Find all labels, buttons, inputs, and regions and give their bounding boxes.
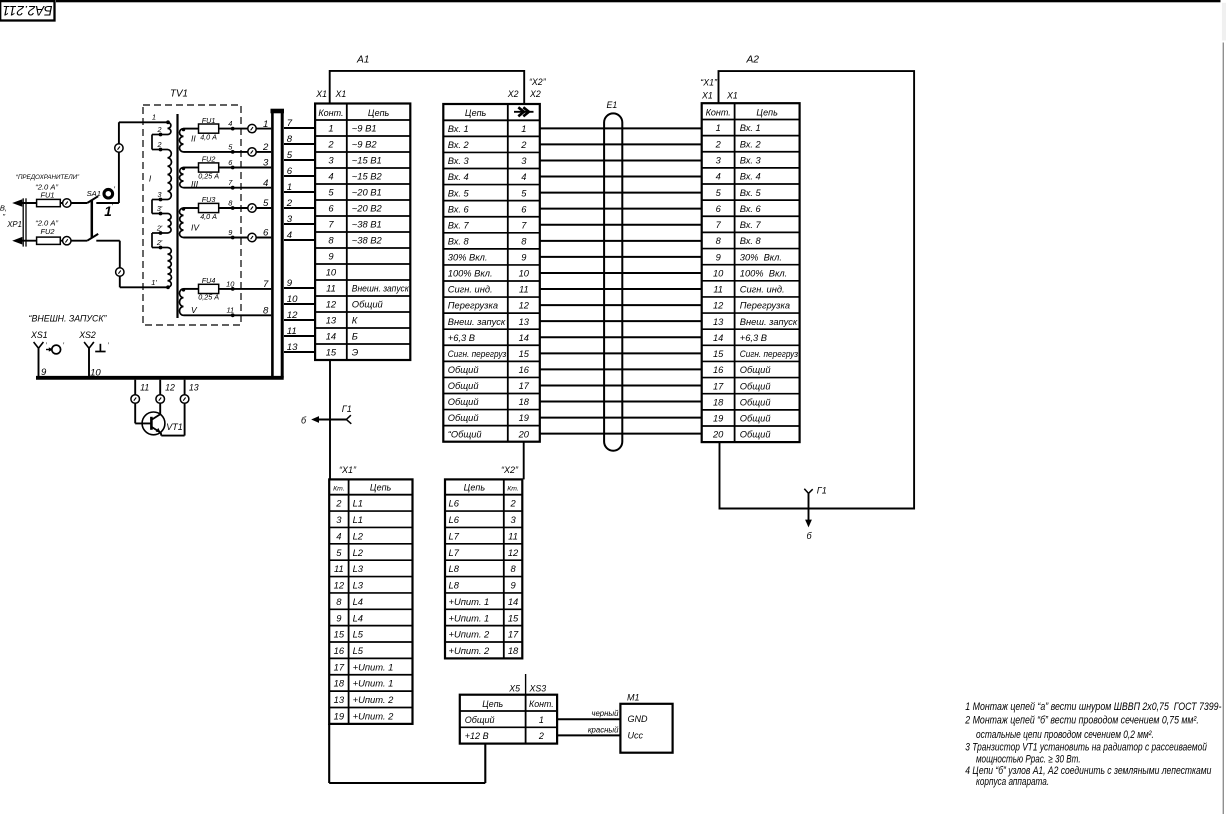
svg-text:10: 10 xyxy=(226,279,235,288)
svg-text:L7: L7 xyxy=(449,547,460,558)
svg-text:FU1: FU1 xyxy=(202,116,216,125)
svg-text:10: 10 xyxy=(90,368,101,379)
svg-text:FU1: FU1 xyxy=(41,191,55,200)
svg-text:Вх. 4: Вх. 4 xyxy=(740,172,761,182)
svg-text:+Uпит. 2: +Uпит. 2 xyxy=(353,694,395,705)
svg-text:16: 16 xyxy=(519,365,530,375)
svg-text:1 Монтаж цепей “а” вести шнуро: 1 Монтаж цепей “а” вести шнуром ШВВП 2х0… xyxy=(965,701,1226,713)
svg-text:L4: L4 xyxy=(353,612,363,623)
svg-text:100% Вкл.: 100% Вкл. xyxy=(740,268,787,278)
svg-text:VT1: VT1 xyxy=(166,422,183,432)
svg-text:12: 12 xyxy=(326,299,337,310)
svg-text:2: 2 xyxy=(538,731,544,741)
svg-text:Цепь: Цепь xyxy=(464,483,486,493)
svg-text:13: 13 xyxy=(334,694,345,705)
svg-text:18: 18 xyxy=(508,645,519,656)
svg-text:М1: М1 xyxy=(627,692,640,702)
svg-text:Общий: Общий xyxy=(448,413,479,423)
svg-text:~20 В1: ~20 В1 xyxy=(352,187,382,198)
svg-text:1: 1 xyxy=(539,715,544,725)
svg-text:2: 2 xyxy=(327,139,334,150)
svg-text:~38 В1: ~38 В1 xyxy=(352,219,382,230)
svg-text:4: 4 xyxy=(336,530,341,541)
svg-text:“X2”: “X2” xyxy=(501,465,519,475)
svg-text:9: 9 xyxy=(328,251,334,262)
svg-text:+Uпит. 1: +Uпит. 1 xyxy=(353,661,394,672)
svg-text:Вх. 6: Вх. 6 xyxy=(448,204,470,214)
svg-text:L7: L7 xyxy=(449,530,460,541)
svg-text:Сигн. перегруз: Сигн. перегруз xyxy=(448,349,507,359)
svg-text:2: 2 xyxy=(286,198,293,209)
svg-text:“X1”: “X1” xyxy=(339,465,357,475)
svg-text:11: 11 xyxy=(287,326,297,337)
svg-text:L3: L3 xyxy=(353,580,364,591)
svg-text:2: 2 xyxy=(157,125,162,134)
svg-text:FU2: FU2 xyxy=(202,155,216,164)
svg-text:8: 8 xyxy=(287,134,293,145)
svg-text:9: 9 xyxy=(510,580,516,591)
svg-text:X1: X1 xyxy=(315,89,327,99)
svg-text:Внеш. запуск: Внеш. запуск xyxy=(740,317,798,327)
svg-text:4: 4 xyxy=(521,172,526,182)
svg-text:Общий: Общий xyxy=(352,299,384,310)
svg-text:L8: L8 xyxy=(449,563,460,574)
svg-text:14: 14 xyxy=(508,596,518,607)
svg-text:Г1: Г1 xyxy=(342,404,352,414)
svg-text:Общий: Общий xyxy=(465,715,495,725)
svg-text:5: 5 xyxy=(716,188,722,198)
svg-text:2: 2 xyxy=(520,140,527,150)
svg-text:10: 10 xyxy=(287,294,298,305)
svg-text:Ucc: Ucc xyxy=(628,731,644,741)
svg-text:2': 2' xyxy=(156,238,163,247)
svg-text:0,25 А: 0,25 А xyxy=(198,293,219,302)
svg-text:9: 9 xyxy=(336,612,342,623)
svg-text:17: 17 xyxy=(519,381,530,391)
svg-text:Кт.: Кт. xyxy=(507,486,519,493)
svg-text:3: 3 xyxy=(336,514,342,525)
svg-text:12: 12 xyxy=(287,310,298,321)
svg-text:6: 6 xyxy=(328,203,334,214)
svg-text:Конт.: Конт. xyxy=(318,108,343,118)
svg-text:10: 10 xyxy=(326,267,337,278)
svg-text:11: 11 xyxy=(713,285,723,295)
svg-text:12: 12 xyxy=(165,382,175,392)
svg-text:8: 8 xyxy=(716,236,722,246)
svg-text:100% Вкл.: 100% Вкл. xyxy=(448,269,493,279)
svg-text:11: 11 xyxy=(326,283,336,294)
svg-text:~38 В2: ~38 В2 xyxy=(352,235,383,246)
svg-text:8: 8 xyxy=(521,236,527,246)
svg-text:1: 1 xyxy=(287,182,292,193)
svg-text:“ВНЕШН. ЗАПУСК”: “ВНЕШН. ЗАПУСК” xyxy=(29,313,108,323)
svg-text:Кт.: Кт. xyxy=(333,486,345,493)
svg-text:1': 1' xyxy=(151,278,157,287)
svg-text:A1: A1 xyxy=(356,55,369,66)
svg-text:19: 19 xyxy=(519,413,529,423)
svg-text:+6,3 В: +6,3 В xyxy=(740,333,767,343)
svg-text:“Общий: “Общий xyxy=(448,429,482,439)
svg-text:3: 3 xyxy=(158,190,162,199)
svg-text:6: 6 xyxy=(287,166,293,177)
svg-text:L3: L3 xyxy=(353,563,364,574)
svg-text:15: 15 xyxy=(713,349,724,359)
svg-text:9: 9 xyxy=(521,253,526,263)
svg-text:3': 3' xyxy=(157,204,163,213)
svg-text:11: 11 xyxy=(334,563,344,574)
svg-text:10: 10 xyxy=(519,269,530,279)
svg-text:7: 7 xyxy=(521,220,527,230)
svg-text:L4: L4 xyxy=(353,596,363,607)
svg-text:14: 14 xyxy=(713,333,723,343)
svg-text:9: 9 xyxy=(41,367,47,378)
svg-text:2: 2 xyxy=(715,139,722,149)
svg-text:16: 16 xyxy=(713,365,724,375)
svg-text:2': 2' xyxy=(156,224,163,233)
svg-text:30% Вкл.: 30% Вкл. xyxy=(740,252,782,262)
svg-text:Вх. 4: Вх. 4 xyxy=(448,172,469,182)
svg-text:4: 4 xyxy=(228,119,232,128)
svg-text:Вх. 8: Вх. 8 xyxy=(448,236,470,246)
svg-text:Внеш. запуск: Внеш. запуск xyxy=(448,317,506,327)
svg-text:Общий: Общий xyxy=(740,414,771,424)
svg-text:10: 10 xyxy=(713,268,724,278)
svg-text:XS3: XS3 xyxy=(529,684,547,694)
svg-text:15: 15 xyxy=(326,347,337,358)
svg-text:2 Монтаж цепей “б” вести прово: 2 Монтаж цепей “б” вести проводом сечени… xyxy=(964,714,1198,726)
svg-text:13: 13 xyxy=(287,342,298,353)
svg-text:L8: L8 xyxy=(449,580,460,591)
svg-text:Внешн. запуск: Внешн. запуск xyxy=(352,283,410,294)
svg-text:X2: X2 xyxy=(529,89,541,99)
svg-text:Конт.: Конт. xyxy=(529,699,554,709)
svg-text:16: 16 xyxy=(334,645,345,656)
svg-text:3: 3 xyxy=(521,156,527,166)
svg-text:Общий: Общий xyxy=(448,365,479,375)
svg-text:Перегрузка: Перегрузка xyxy=(448,301,498,311)
svg-text:2: 2 xyxy=(157,140,162,149)
svg-text:Цепь: Цепь xyxy=(756,107,778,117)
svg-text:“ПРЕДОХРАНИТЕЛИ”: “ПРЕДОХРАНИТЕЛИ” xyxy=(16,174,80,181)
svg-text:+Uпит. 2: +Uпит. 2 xyxy=(353,710,395,721)
svg-text:14: 14 xyxy=(519,333,529,343)
svg-text:1: 1 xyxy=(328,123,333,134)
svg-text:9: 9 xyxy=(228,228,232,237)
svg-text:К: К xyxy=(352,315,358,326)
svg-text:Э: Э xyxy=(352,347,359,358)
svg-text:18: 18 xyxy=(713,397,724,407)
svg-text:мощностью Ррас. ≥ 30 Вт.: мощностью Ррас. ≥ 30 Вт. xyxy=(976,754,1081,766)
svg-text:4,0 А: 4,0 А xyxy=(200,212,217,221)
svg-text:L1: L1 xyxy=(353,498,363,509)
svg-text:11: 11 xyxy=(226,306,234,315)
svg-text:3: 3 xyxy=(287,214,293,225)
svg-text:1: 1 xyxy=(263,119,268,130)
svg-text:Вх. 2: Вх. 2 xyxy=(740,139,762,149)
svg-text:Общий: Общий xyxy=(448,397,479,407)
svg-text:Общий: Общий xyxy=(740,397,771,407)
svg-text:Цепь: Цепь xyxy=(482,699,503,709)
svg-text:8: 8 xyxy=(336,596,342,607)
svg-text:Перегрузка: Перегрузка xyxy=(740,301,790,311)
svg-text:L2: L2 xyxy=(353,547,364,558)
svg-text:4: 4 xyxy=(716,172,721,182)
svg-text:+Uпит. 1: +Uпит. 1 xyxy=(449,596,490,607)
svg-text:XS1: XS1 xyxy=(30,330,48,340)
svg-text:8: 8 xyxy=(263,306,269,317)
svg-text:A2: A2 xyxy=(746,55,760,66)
svg-text:SA1: SA1 xyxy=(87,189,101,198)
svg-text:11: 11 xyxy=(140,382,149,392)
svg-text:~9 В1: ~9 В1 xyxy=(352,123,377,134)
svg-text:12: 12 xyxy=(334,580,345,591)
svg-text:Вх. 7: Вх. 7 xyxy=(448,220,470,230)
svg-text:11: 11 xyxy=(519,285,529,295)
svg-text:12: 12 xyxy=(508,547,519,558)
svg-text:8: 8 xyxy=(510,563,516,574)
svg-text:Общий: Общий xyxy=(740,381,771,391)
svg-text:3: 3 xyxy=(263,158,269,169)
svg-text:остальные цепи проводом сечени: остальные цепи проводом сечением 0,2 мм²… xyxy=(976,729,1154,741)
svg-text:GND: GND xyxy=(628,714,649,724)
svg-text:3: 3 xyxy=(328,155,334,166)
svg-text:черный: черный xyxy=(591,709,619,718)
svg-text:L6: L6 xyxy=(449,498,460,509)
svg-text:X1: X1 xyxy=(701,91,713,101)
svg-text:4: 4 xyxy=(328,171,333,182)
svg-text:6: 6 xyxy=(716,204,722,214)
svg-text:13: 13 xyxy=(189,382,199,392)
svg-text:0,25 А: 0,25 А xyxy=(198,171,219,180)
svg-text:корпуса аппарата.: корпуса аппарата. xyxy=(976,776,1049,788)
svg-text:11: 11 xyxy=(508,530,518,541)
svg-text:15: 15 xyxy=(519,349,530,359)
svg-text:FU4: FU4 xyxy=(202,276,216,285)
svg-text:Вх. 3: Вх. 3 xyxy=(448,156,470,166)
svg-text:5: 5 xyxy=(287,150,293,161)
svg-text:9: 9 xyxy=(716,252,721,262)
svg-text:+Uпит. 1: +Uпит. 1 xyxy=(353,678,394,689)
svg-text:5: 5 xyxy=(328,187,334,198)
svg-text:Сигн. инд.: Сигн. инд. xyxy=(740,285,785,295)
svg-text:+Uпит. 2: +Uпит. 2 xyxy=(449,645,491,656)
svg-text:15: 15 xyxy=(508,612,519,623)
svg-text:Вх. 8: Вх. 8 xyxy=(740,236,762,246)
svg-text:Общий: Общий xyxy=(740,430,771,440)
svg-text:1: 1 xyxy=(152,113,156,122)
svg-text:19: 19 xyxy=(713,414,723,424)
svg-text:Б: Б xyxy=(352,331,358,342)
svg-text:Общий: Общий xyxy=(740,365,771,375)
svg-text:II: II xyxy=(191,134,196,144)
svg-text:’: ’ xyxy=(113,186,115,195)
svg-text:1: 1 xyxy=(716,123,721,133)
svg-text:13: 13 xyxy=(519,317,530,327)
svg-text:~15 В1: ~15 В1 xyxy=(352,155,382,166)
svg-text:2: 2 xyxy=(335,498,342,509)
svg-text:IV: IV xyxy=(191,223,200,233)
svg-text:~9 В2: ~9 В2 xyxy=(352,139,378,150)
svg-text:19: 19 xyxy=(334,710,345,721)
svg-text:L6: L6 xyxy=(449,514,460,525)
svg-text:+12 В: +12 В xyxy=(465,731,489,741)
svg-text:2: 2 xyxy=(262,142,269,153)
svg-text:9: 9 xyxy=(287,278,293,289)
svg-text:17: 17 xyxy=(508,629,519,640)
svg-text:X5: X5 xyxy=(508,684,520,694)
svg-text:Вх. 1: Вх. 1 xyxy=(740,123,761,133)
svg-text:L2: L2 xyxy=(353,530,364,541)
svg-text:13: 13 xyxy=(713,317,724,327)
svg-text:XP1: XP1 xyxy=(6,220,22,229)
svg-text:красный: красный xyxy=(588,725,619,734)
svg-text:Сигн. инд.: Сигн. инд. xyxy=(448,285,493,295)
svg-text:Цепь: Цепь xyxy=(368,108,390,118)
svg-text:2: 2 xyxy=(509,498,516,509)
svg-text:+Uпит. 2: +Uпит. 2 xyxy=(449,629,491,640)
svg-text:FU3: FU3 xyxy=(202,195,216,204)
svg-text:“X2”: “X2” xyxy=(529,77,547,87)
svg-text:E1: E1 xyxy=(607,100,618,110)
svg-text:30% Вкл.: 30% Вкл. xyxy=(448,253,488,263)
svg-text:8: 8 xyxy=(328,235,334,246)
svg-text:Вх. 1: Вх. 1 xyxy=(448,124,469,134)
svg-text:7: 7 xyxy=(328,219,334,230)
svg-text:1: 1 xyxy=(521,124,526,134)
svg-text:Вх. 5: Вх. 5 xyxy=(448,188,470,198)
svg-text:17: 17 xyxy=(713,381,724,391)
svg-text:Общий: Общий xyxy=(448,381,479,391)
svg-text:+Uпит. 1: +Uпит. 1 xyxy=(449,612,490,623)
svg-text:“X1”: “X1” xyxy=(700,78,718,88)
svg-text:5: 5 xyxy=(263,198,269,209)
svg-text:6: 6 xyxy=(521,204,527,214)
svg-text:Г1: Г1 xyxy=(817,486,827,496)
svg-text:FU2: FU2 xyxy=(41,227,55,236)
svg-text:20: 20 xyxy=(712,430,724,440)
svg-text:~20 В2: ~20 В2 xyxy=(352,203,383,214)
svg-text:13: 13 xyxy=(326,315,337,326)
svg-text:Вх. 5: Вх. 5 xyxy=(740,188,762,198)
svg-text:Цепь: Цепь xyxy=(465,108,487,118)
svg-text:X2: X2 xyxy=(507,89,519,99)
svg-text:Конт.: Конт. xyxy=(706,107,731,117)
svg-text:7: 7 xyxy=(263,279,269,290)
svg-text:14: 14 xyxy=(326,331,336,342)
svg-text:X1: X1 xyxy=(726,91,738,101)
svg-text:18: 18 xyxy=(334,678,345,689)
svg-text:+6,3 В: +6,3 В xyxy=(448,333,475,343)
svg-text:12: 12 xyxy=(519,301,530,311)
svg-text:X1: X1 xyxy=(335,89,347,99)
svg-text:Вх. 3: Вх. 3 xyxy=(740,155,762,165)
svg-text:Цепь: Цепь xyxy=(370,483,392,493)
svg-text:18: 18 xyxy=(519,397,530,407)
svg-text:Сигн. перегруз: Сигн. перегруз xyxy=(740,349,799,359)
svg-text:3 Транзистор VT1 установить на: 3 Транзистор VT1 установить на радиатор … xyxy=(965,741,1207,753)
svg-text:6: 6 xyxy=(263,228,269,239)
svg-text:15: 15 xyxy=(334,629,345,640)
svg-text:Вх. 7: Вх. 7 xyxy=(740,220,762,230)
svg-text:5: 5 xyxy=(521,188,527,198)
svg-text:L1: L1 xyxy=(353,514,363,525)
svg-text:3: 3 xyxy=(510,514,516,525)
svg-text:7: 7 xyxy=(287,118,293,129)
svg-text:20: 20 xyxy=(518,429,530,439)
svg-text:БА2.211: БА2.211 xyxy=(3,3,53,18)
svg-text:TV1: TV1 xyxy=(170,89,188,100)
svg-text:7: 7 xyxy=(716,220,722,230)
svg-text:4: 4 xyxy=(287,230,292,241)
svg-text:L5: L5 xyxy=(353,629,364,640)
svg-text:Вх. 2: Вх. 2 xyxy=(448,140,470,150)
svg-text:Вх. 6: Вх. 6 xyxy=(740,204,762,214)
svg-text:4 Цепи “б” узлов А1, А2 соедин: 4 Цепи “б” узлов А1, А2 соединить с земл… xyxy=(965,765,1211,777)
svg-text:5: 5 xyxy=(336,547,342,558)
svg-text:3: 3 xyxy=(716,155,722,165)
svg-text:~15 В2: ~15 В2 xyxy=(352,171,383,182)
svg-text:XS2: XS2 xyxy=(78,330,96,340)
svg-text:17: 17 xyxy=(334,661,345,672)
svg-text:L5: L5 xyxy=(353,645,364,656)
svg-text:4,0 А: 4,0 А xyxy=(200,132,217,141)
svg-text:12: 12 xyxy=(713,301,724,311)
svg-text:4: 4 xyxy=(263,178,268,189)
